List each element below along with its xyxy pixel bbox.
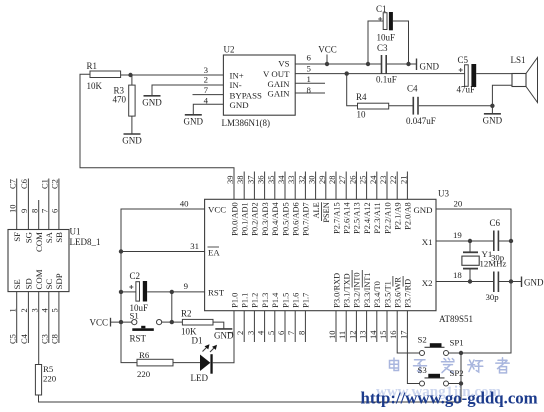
svg-text:GAIN: GAIN — [268, 79, 291, 89]
pushbutton S3 SP2 — [418, 365, 464, 386]
U3 top pin 35 P0.4/AD4 — [266, 172, 280, 236]
U2 pin number 4 — [204, 96, 209, 106]
U1 pin name SA top — [44, 231, 54, 243]
watermark url go-gddq — [361, 389, 538, 408]
svg-text:10K: 10K — [87, 81, 103, 91]
svg-text:31: 31 — [190, 241, 199, 251]
U3 top pin 28 P2.7/A15 — [327, 172, 341, 234]
svg-text:R1: R1 — [87, 61, 98, 71]
svg-text:D1: D1 — [192, 336, 203, 346]
U3 top pin 24 P2.3/A11 — [368, 172, 382, 234]
node RST junction — [170, 290, 174, 294]
node VCC rail at S1 — [119, 320, 123, 324]
U3 top pin 39 P0.0/AD0 — [225, 176, 239, 236]
svg-text:P2.6/A14: P2.6/A14 — [343, 201, 352, 233]
U3 bottom pin 17 P3.7/RD — [398, 276, 412, 339]
U3 bottom pin 14 P3.4/T0 — [368, 281, 382, 342]
svg-text:C8: C8 — [50, 334, 60, 344]
U1 pin name SF top — [12, 232, 22, 242]
svg-text:8: 8 — [30, 209, 40, 213]
U3 top pin 30 ALE — [307, 172, 321, 219]
svg-text:35: 35 — [266, 176, 276, 185]
U3 pin number 31 — [190, 241, 199, 251]
U1 pin name SC bottom — [44, 279, 54, 290]
svg-text:C5: C5 — [8, 334, 18, 344]
mcu U3 box — [205, 189, 473, 325]
U3 bottom pin 16 P3.6/WR — [388, 276, 402, 339]
wire GND pin20 to right rail — [436, 209, 511, 353]
svg-text:36: 36 — [256, 176, 266, 185]
U2 pin number 1 — [307, 74, 311, 84]
wire RST pin — [147, 291, 204, 293]
capacitor C2 10uF — [121, 271, 148, 313]
svg-text:P0.1/AD1: P0.1/AD1 — [241, 202, 250, 235]
U3 top pin 27 P2.6/A14 — [337, 172, 351, 234]
svg-text:1: 1 — [8, 308, 18, 312]
svg-text:U3: U3 — [438, 189, 449, 199]
svg-text:C4: C4 — [407, 84, 418, 94]
U3 pin number 40 — [180, 199, 189, 209]
svg-text:1: 1 — [307, 74, 311, 84]
svg-text:C7: C7 — [8, 179, 18, 189]
svg-text:P1.5: P1.5 — [281, 293, 290, 308]
svg-text:P3.2/INT0: P3.2/INT0 — [353, 272, 362, 307]
wire VOUT branch down to R4 — [347, 74, 358, 106]
wire VCC rail pin40 — [121, 209, 205, 363]
svg-text:5: 5 — [50, 308, 60, 312]
power VCC at VS — [318, 45, 337, 67]
svg-text:0.1uF: 0.1uF — [376, 75, 397, 85]
U1 top pin 9 wire/label — [19, 179, 29, 230]
U3 bottom pin 7 P1.6 — [286, 293, 300, 342]
svg-text:C5: C5 — [458, 55, 469, 65]
U3 bottom pin 15 P3.5/T1 — [378, 281, 392, 342]
svg-text:470: 470 — [113, 95, 127, 105]
svg-text:SD: SD — [24, 278, 34, 289]
svg-text:3: 3 — [30, 308, 40, 312]
svg-text:2: 2 — [19, 308, 29, 312]
wire U2 pin5 VOUT to C5 — [295, 73, 464, 75]
speaker LS1 — [511, 55, 538, 103]
wire right rail to bottom rail — [460, 353, 462, 402]
svg-text:34: 34 — [276, 175, 286, 184]
U3 top pin 22 P2.1/A9 — [388, 172, 402, 230]
svg-text:VS: VS — [278, 59, 289, 69]
node SP2 junction — [459, 381, 463, 385]
svg-text:33: 33 — [286, 176, 296, 185]
svg-text:C1: C1 — [376, 4, 387, 14]
wire P3.7 to S3 — [407, 311, 419, 384]
svg-text:COM: COM — [34, 232, 44, 252]
svg-text:S3: S3 — [418, 365, 428, 375]
U3 top pin 21 P2.0/A8 — [398, 172, 412, 230]
svg-text:SP1: SP1 — [450, 338, 464, 348]
node C1 left — [366, 62, 370, 66]
display U1 box — [8, 227, 101, 292]
svg-text:220: 220 — [43, 374, 57, 384]
capacitor C7 30p lower — [486, 272, 500, 303]
watermark chinese text (vector strokes: dian zi ai hao zhe) — [390, 358, 510, 373]
U3 right pin label X1 — [422, 237, 433, 247]
svg-text:P1.1: P1.1 — [241, 293, 250, 308]
wire C4 to speaker ground node — [419, 105, 493, 107]
svg-text:37: 37 — [245, 176, 255, 185]
wire S2 to right rail — [449, 352, 462, 354]
U1 bottom pin 1 wire/label — [8, 292, 18, 344]
wire S3 to right rail — [449, 383, 462, 385]
U2 pin labels left — [230, 71, 263, 111]
svg-text:P3.6/WR: P3.6/WR — [394, 277, 403, 308]
svg-text:PSEN: PSEN — [322, 202, 331, 222]
svg-text:C6: C6 — [490, 218, 501, 228]
U3 top pin 32 P0.7/AD7 — [296, 172, 310, 236]
pushbutton S2 SP1 — [418, 335, 464, 356]
node X1 crystal junction — [468, 239, 472, 243]
svg-text:SDP: SDP — [54, 273, 64, 289]
U3 top pin 36 P0.3/AD3 — [256, 172, 270, 236]
svg-text:32: 32 — [296, 176, 306, 185]
svg-text:AT89S51: AT89S51 — [439, 314, 473, 324]
svg-text:EA: EA — [208, 248, 220, 258]
resistor R3 — [113, 75, 136, 116]
U3 bottom pin 5 P1.4 — [266, 292, 280, 342]
svg-text:LED: LED — [191, 373, 209, 383]
svg-text:http://www.go-gddq.com: http://www.go-gddq.com — [361, 389, 538, 408]
wire R3 to ground — [131, 116, 133, 134]
ground U2 pin4 — [184, 115, 204, 127]
svg-text:30p: 30p — [486, 292, 500, 302]
resistor R2 — [172, 309, 213, 337]
wire X2 pin18 — [436, 281, 511, 283]
wire R4 to C4 — [389, 105, 413, 107]
svg-text:P0.6/AD6: P0.6/AD6 — [292, 202, 301, 235]
svg-text:P1.2: P1.2 — [251, 293, 260, 308]
resistor R1 — [87, 61, 121, 91]
svg-text:5: 5 — [307, 63, 312, 73]
U3 top pin 37 P0.2/AD2 — [245, 172, 259, 236]
svg-text:P3.7/RD: P3.7/RD — [404, 279, 413, 308]
svg-text:GND: GND — [142, 97, 162, 107]
svg-text:C4: C4 — [19, 333, 29, 344]
wire R1 right to U2 IN+ — [121, 74, 224, 76]
svg-text:BYPASS: BYPASS — [230, 91, 263, 101]
svg-text:SA: SA — [44, 231, 54, 243]
svg-text:COM: COM — [34, 269, 44, 289]
svg-text:P1.3: P1.3 — [261, 293, 270, 308]
svg-text:R4: R4 — [356, 92, 367, 102]
svg-text:P1.0: P1.0 — [230, 293, 239, 308]
svg-text:S1: S1 — [130, 311, 139, 321]
U3 bottom pin 1 P1.0 — [225, 293, 239, 335]
svg-text:VCC: VCC — [89, 318, 108, 328]
svg-text:SC: SC — [44, 279, 54, 290]
svg-text:R6: R6 — [139, 350, 150, 360]
svg-text:P3.3/INT1: P3.3/INT1 — [363, 272, 372, 307]
svg-text:C3: C3 — [40, 334, 50, 344]
crystal Y1 12MHz — [462, 241, 507, 282]
U3 right pin label X2 — [422, 278, 433, 288]
svg-text:U1: U1 — [70, 227, 81, 237]
svg-text:7: 7 — [204, 85, 209, 95]
wire C1 loop — [368, 21, 409, 64]
U3 bottom pin 6 P1.5 — [276, 293, 290, 342]
wire EA to VCC rail — [121, 251, 205, 253]
U1 top pin 10 wire/label — [8, 179, 18, 230]
svg-text:4: 4 — [40, 308, 50, 313]
ground X2 rail — [511, 277, 544, 288]
node speaker ground junction — [490, 104, 494, 108]
svg-text:P2.0/A8: P2.0/A8 — [404, 202, 413, 229]
svg-text:30: 30 — [307, 176, 317, 185]
U2 pin number 3 — [204, 65, 209, 75]
svg-text:LM386N1(8): LM386N1(8) — [222, 118, 271, 128]
svg-text:40: 40 — [180, 199, 189, 209]
watermark faint url — [376, 384, 502, 400]
wire U2 pin2 IN- to ground — [152, 85, 223, 96]
svg-text:9: 9 — [184, 281, 189, 291]
svg-text:P0.2/AD2: P0.2/AD2 — [251, 202, 260, 235]
svg-text:19: 19 — [453, 230, 462, 240]
svg-text:P2.4/A12: P2.4/A12 — [363, 202, 372, 234]
svg-text:X1: X1 — [422, 237, 433, 247]
svg-text:10: 10 — [357, 110, 367, 120]
svg-text:0.047uF: 0.047uF — [406, 116, 436, 126]
U3 bottom pin 11 P3.1/TXD — [337, 273, 351, 342]
svg-text:P1.4: P1.4 — [271, 292, 280, 308]
svg-text:8: 8 — [307, 85, 312, 95]
U3 bottom pin 3 P1.2 — [245, 293, 259, 342]
svg-text:P2.5/A13: P2.5/A13 — [353, 202, 362, 234]
svg-text:SB: SB — [54, 232, 64, 243]
svg-text:28: 28 — [327, 176, 337, 185]
node X2 rail junction — [509, 279, 513, 283]
U3 pin number 18 — [453, 270, 462, 280]
U3 top pin 33 P0.6/AD6 — [286, 172, 300, 236]
svg-text:P0.0/AD0: P0.0/AD0 — [230, 202, 239, 235]
wire U2 pin8 GAIN stub — [295, 92, 325, 94]
wire LED to P1.0 — [213, 311, 234, 363]
svg-text:GAIN: GAIN — [268, 89, 291, 99]
ground speaker — [483, 114, 503, 126]
U3 pin number 20 — [454, 199, 463, 209]
U2 pin labels right — [263, 59, 290, 99]
svg-text:V OUT: V OUT — [263, 69, 290, 79]
U3 bottom pin 4 P1.3 — [256, 293, 270, 342]
svg-text:7: 7 — [40, 209, 50, 213]
U2 pin number 8 — [307, 85, 312, 95]
svg-text:RST: RST — [130, 334, 147, 344]
svg-text:SE: SE — [12, 279, 22, 289]
svg-text:SG: SG — [24, 231, 34, 243]
svg-text:P1.6: P1.6 — [292, 293, 301, 308]
U3 bottom pin 13 P3.3/INT1 — [358, 270, 372, 342]
svg-text:P0.5/AD5: P0.5/AD5 — [281, 202, 290, 235]
node SP1 junction — [459, 351, 463, 355]
wire speaker return — [492, 85, 512, 113]
svg-text:26: 26 — [347, 176, 357, 185]
U1 top pin 8 wire/label — [30, 200, 40, 230]
svg-text:ALE: ALE — [312, 202, 321, 218]
wire C5 to speaker — [476, 73, 512, 75]
wire R2 to ground — [213, 322, 224, 329]
svg-text:C2: C2 — [50, 179, 60, 189]
svg-text:LED8_1: LED8_1 — [70, 237, 101, 247]
capacitor C6 30p — [490, 218, 501, 251]
svg-text:P0.3/AD3: P0.3/AD3 — [261, 202, 270, 235]
wire U2 pin6 VS rail — [295, 63, 416, 65]
svg-text:VCC: VCC — [318, 45, 337, 55]
U3 left pin label VCC — [208, 205, 226, 215]
svg-text:220: 220 — [137, 369, 151, 379]
svg-text:P3.1/TXD: P3.1/TXD — [343, 273, 352, 307]
svg-text:LS1: LS1 — [511, 55, 526, 65]
U1 pin name COM bottom — [34, 269, 44, 289]
svg-text:10: 10 — [8, 205, 18, 214]
U3 right pin label GND — [413, 205, 432, 215]
U1 pin name SB top — [54, 232, 64, 243]
svg-text:R5: R5 — [43, 364, 54, 374]
svg-text:9: 9 — [19, 209, 29, 213]
svg-text:39: 39 — [225, 176, 235, 185]
svg-text:2: 2 — [204, 75, 208, 85]
svg-text:RST: RST — [208, 288, 225, 298]
svg-text:P0.4/AD4: P0.4/AD4 — [271, 201, 280, 235]
capacitor C3 0.1uF — [376, 43, 397, 85]
svg-text:3: 3 — [204, 65, 209, 75]
svg-text:38: 38 — [235, 176, 245, 185]
U1 top pin 7 wire/label — [40, 179, 50, 230]
U2 pin number 2 — [204, 75, 208, 85]
svg-text:21: 21 — [398, 176, 408, 185]
node EA junction — [119, 249, 123, 253]
svg-text:P2.3/A11: P2.3/A11 — [373, 202, 382, 233]
svg-text:VCC: VCC — [208, 205, 226, 215]
svg-text:GND: GND — [420, 62, 440, 72]
U3 top pin 26 P2.5/A13 — [347, 172, 361, 234]
resistor R5 — [35, 364, 56, 395]
U3 left pin label RST — [208, 288, 225, 298]
led D1 — [191, 336, 218, 384]
svg-text:10uF: 10uF — [377, 33, 396, 43]
node X1 rail junction — [509, 239, 513, 243]
svg-text:X2: X2 — [422, 278, 433, 288]
U3 bottom pin 2 P1.1 — [235, 293, 249, 342]
svg-text:C2: C2 — [130, 271, 141, 281]
svg-text:22: 22 — [388, 176, 398, 185]
svg-text:C3: C3 — [377, 43, 388, 53]
svg-text:P2.1/A9: P2.1/A9 — [394, 202, 403, 229]
svg-text:12MHz: 12MHz — [480, 259, 507, 269]
svg-text:23: 23 — [378, 176, 388, 185]
U2 pin number 6 — [307, 53, 312, 63]
svg-text:SP2: SP2 — [450, 368, 464, 378]
node X2 crystal junction — [468, 279, 472, 283]
U3 bottom pin 12 P3.2/INT0 — [347, 270, 361, 342]
wire P3.6 to S2 — [397, 311, 419, 353]
wire RST junction down to S1/R2 node — [171, 292, 173, 322]
U3 top pin 25 P2.4/A12 — [358, 172, 372, 234]
svg-text:GND: GND — [483, 115, 503, 125]
capacitor C1 10uF — [376, 4, 395, 43]
U1 top pin 6 wire/label — [50, 179, 60, 230]
U2 pin number 7 — [204, 85, 209, 95]
node C1 right — [406, 62, 410, 66]
U3 top pin 23 P2.2/A10 — [378, 172, 392, 234]
op-amp U2 LM386 — [222, 45, 296, 129]
svg-text:SF: SF — [12, 232, 22, 242]
pushbutton S1 — [130, 311, 172, 344]
ground IN- — [142, 96, 162, 108]
U3 top pin 34 P0.5/AD5 — [276, 172, 290, 236]
U3 pin number 19 — [453, 230, 462, 240]
svg-text:R2: R2 — [181, 309, 192, 319]
svg-text:GND: GND — [524, 278, 544, 288]
capacitor C4 0.047uF — [406, 84, 436, 127]
svg-text:24: 24 — [368, 175, 378, 184]
svg-text:IN-: IN- — [230, 80, 242, 90]
svg-text:C1: C1 — [40, 179, 50, 189]
wire R5 to bottom ground rail — [39, 395, 462, 402]
svg-text:U2: U2 — [224, 45, 235, 55]
svg-text:IN+: IN+ — [230, 71, 244, 81]
svg-text:P2.2/A10: P2.2/A10 — [383, 202, 392, 234]
svg-text:6: 6 — [50, 209, 60, 213]
U1 bottom pin 4 wire/label — [40, 292, 50, 344]
svg-text:GND: GND — [214, 330, 234, 340]
svg-text:GND: GND — [184, 116, 204, 126]
node VOUT branch — [345, 71, 349, 75]
U1 pin name SG top — [24, 231, 34, 243]
power VCC at S1 — [89, 318, 131, 328]
U2 pin number 5 — [307, 63, 312, 73]
U3 bottom pin 10 P3.0/RXD — [327, 273, 341, 342]
svg-text:P3.0/RXD: P3.0/RXD — [332, 273, 341, 308]
svg-text:6: 6 — [307, 53, 312, 63]
svg-text:P2.7/A15: P2.7/A15 — [332, 202, 341, 234]
svg-text:P0.7/AD7: P0.7/AD7 — [302, 202, 311, 235]
resistor R6 — [137, 350, 173, 379]
svg-text:18: 18 — [453, 270, 462, 280]
svg-text:29: 29 — [317, 176, 327, 185]
ground R3 — [122, 134, 142, 146]
U1 pin name SDP bottom — [54, 273, 64, 289]
svg-text:27: 27 — [337, 176, 347, 185]
node C2 junction — [119, 290, 123, 294]
svg-text:GND: GND — [413, 205, 432, 215]
ground R2 — [214, 329, 234, 341]
U3 bottom pin 8 P1.7 — [296, 293, 310, 342]
wire U2 pin1 GAIN stub — [295, 82, 325, 84]
node S1/R2 junction — [170, 320, 174, 324]
svg-text:GND: GND — [122, 136, 142, 146]
svg-text:GND: GND — [230, 100, 249, 110]
svg-text:S2: S2 — [418, 335, 427, 345]
U3 left pin label EA — [208, 247, 221, 258]
ground at VS rail right — [417, 59, 440, 72]
wire X1 pin19 — [436, 240, 511, 242]
resistor R4 — [356, 92, 389, 120]
wire R1 left to MCU pin39 net — [80, 74, 234, 199]
U3 pin number 9 — [184, 281, 189, 291]
U1 bottom pin 3 wire/label — [30, 292, 40, 365]
wire U2 pin4 GND to ground — [193, 104, 223, 114]
svg-text:P1.7: P1.7 — [302, 293, 311, 308]
svg-text:P3.4/T0: P3.4/T0 — [373, 281, 382, 308]
wire U2 pin7 BYPASS stub — [193, 94, 224, 96]
U3 top pin 38 P0.1/AD1 — [235, 172, 249, 236]
U3 top pin 29 PSEN — [317, 172, 331, 223]
U1 bottom pin 2 wire/label — [19, 292, 29, 344]
